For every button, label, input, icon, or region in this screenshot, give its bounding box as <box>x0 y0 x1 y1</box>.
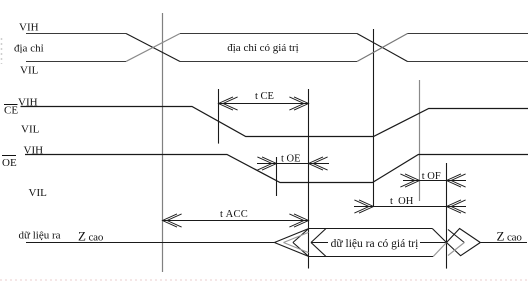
svg-text:t CE: t CE <box>255 91 274 102</box>
wire data-out high-Z line right <box>480 242 527 244</box>
label dia chi co gia tri <box>222 40 306 53</box>
scan noise strip <box>0 279 528 281</box>
svg-text:t ACC: t ACC <box>220 209 248 220</box>
svg-text:t OE: t OE <box>281 154 301 165</box>
dimension tOH <box>354 200 466 213</box>
svg-text:cao: cao <box>507 231 522 243</box>
svg-text:địa chỉ: địa chỉ <box>14 43 44 55</box>
wire data-out high-Z line left <box>26 242 274 244</box>
wire address bus VIH top right segment <box>408 33 528 35</box>
svg-text:Z: Z <box>78 229 86 244</box>
dimension tACC <box>163 214 309 227</box>
svg-text:OE: OE <box>2 157 17 169</box>
wire address bus VIH top segments <box>26 33 357 35</box>
svg-text:CE: CE <box>4 105 18 117</box>
label du lieu ra co gia tri <box>328 236 420 249</box>
vertical reference line V1 (t=0) <box>162 13 164 272</box>
wire OE waveform <box>25 155 528 183</box>
svg-text:VIL: VIL <box>21 124 40 136</box>
dimension tCE <box>219 97 309 110</box>
scan noise left edge <box>1 38 3 64</box>
label t OE <box>279 153 305 163</box>
address crossover X1 <box>126 34 180 62</box>
dimension tOF <box>400 174 466 187</box>
wire data valid centre line <box>311 242 447 244</box>
wire data valid bottom edge <box>309 256 434 258</box>
vertical reference line V6 (OE high) <box>419 80 421 201</box>
svg-text:địa chỉ có giá trị: địa chỉ có giá trị <box>227 42 298 54</box>
svg-text:cao: cao <box>89 232 104 244</box>
vertical reference line V2 (tCE left) <box>218 89 220 144</box>
data bus left transition chevrons <box>274 229 326 257</box>
svg-text:dữ liệu ra: dữ liệu ra <box>19 230 61 242</box>
svg-text:VIH: VIH <box>19 22 39 34</box>
svg-text:dữ liệu ra có giá trị: dữ liệu ra có giá trị <box>331 238 419 250</box>
vertical reference line V4 (data valid start) <box>308 89 310 269</box>
dimension tOE <box>257 157 329 170</box>
data bus right diamond <box>447 229 481 256</box>
data bus left transition gray chevron <box>284 232 309 252</box>
wire data valid top edge <box>309 228 433 230</box>
svg-text:t OF: t OF <box>422 171 441 182</box>
data bus right closing slopes <box>432 229 446 243</box>
vertical reference line V3 (tOE left) <box>276 157 278 196</box>
address crossover X2 <box>357 34 408 62</box>
svg-text:VIL: VIL <box>20 65 39 77</box>
wire CE waveform <box>21 107 528 137</box>
svg-text:t OH: t OH <box>390 196 414 207</box>
vertical reference line V5 (address change) <box>373 29 375 207</box>
svg-text:VIH: VIH <box>24 145 44 157</box>
svg-text:VIL: VIL <box>29 187 48 199</box>
vertical reference line V7 (data float) <box>446 163 448 269</box>
svg-text:VIH: VIH <box>18 97 38 109</box>
wire address bus VIL bottom segments <box>26 61 528 63</box>
svg-text:Z: Z <box>497 228 505 243</box>
label t OF <box>420 170 444 180</box>
